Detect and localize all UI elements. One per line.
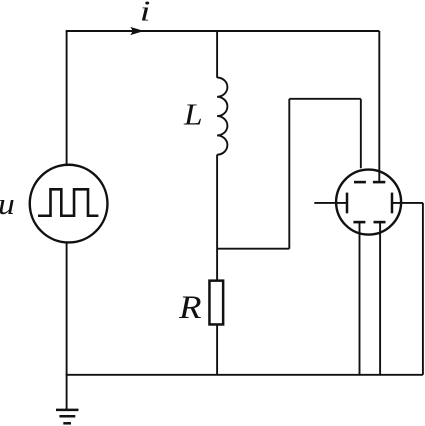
svg-text:L: L: [183, 97, 203, 132]
wire: right branch from top bus into tube: [378, 31, 380, 182]
inductor L coil: [217, 78, 227, 155]
wire: tube bottom-left lead: [359, 222, 361, 375]
wire: left branch lower: [66, 242, 68, 375]
wire: tube right lead: [392, 202, 423, 204]
wire: junction to feedback loop: [217, 248, 289, 250]
tube left electrode bar: [346, 193, 349, 214]
square-wave symbol inside source: [38, 189, 98, 215]
tube top-left grid dash: [354, 181, 366, 184]
wire: grid lead down to tube: [360, 99, 362, 168]
wire: inductor to resistor: [216, 155, 218, 281]
wire: inductor branch top: [216, 31, 218, 78]
wire: top bus: [66, 30, 380, 32]
wire: feedback loop vertical: [288, 99, 290, 249]
tube bottom-right electrode bar: [374, 221, 386, 224]
wire: feedback loop horizontal: [289, 98, 361, 100]
wire: right branch down: [422, 203, 424, 375]
tube top-right anode bar: [373, 181, 385, 184]
tube right electrode bar: [391, 193, 394, 214]
wire: left branch upper: [66, 31, 68, 166]
arrow: current i direction: [130, 27, 144, 35]
tube bottom-left electrode bar: [353, 221, 365, 224]
wire: tube left stub lead: [314, 202, 347, 204]
wire: bottom bus: [66, 374, 423, 376]
wire: tube bottom-right lead: [379, 222, 381, 375]
source u (square-wave generator): [30, 165, 108, 243]
svg-text:u: u: [0, 186, 15, 221]
tube envelope: [336, 170, 401, 235]
ground: [56, 375, 79, 423]
svg-text:R: R: [178, 290, 202, 326]
svg-text:i: i: [140, 0, 151, 28]
resistor R: [209, 281, 223, 325]
wire: resistor to bottom bus: [216, 325, 218, 375]
